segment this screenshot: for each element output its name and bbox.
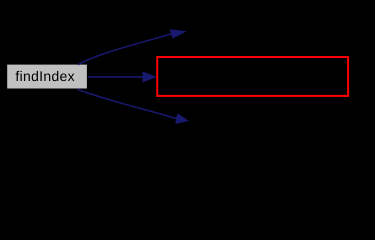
arrowhead middle — [143, 71, 157, 82]
arrowhead top — [170, 29, 187, 38]
label findIndex — [16, 71, 75, 81]
edge findIndex to top callee (wire) — [78, 34, 171, 65]
node findIndex (gray caller box) — [7, 65, 87, 89]
node callee (red-bordered, label invisible on black) — [157, 57, 348, 96]
edge findIndex to red callee (wire) — [88, 76, 144, 78]
arrowhead bottom — [175, 113, 189, 124]
edge findIndex to bottom callee (wire) — [78, 90, 177, 119]
